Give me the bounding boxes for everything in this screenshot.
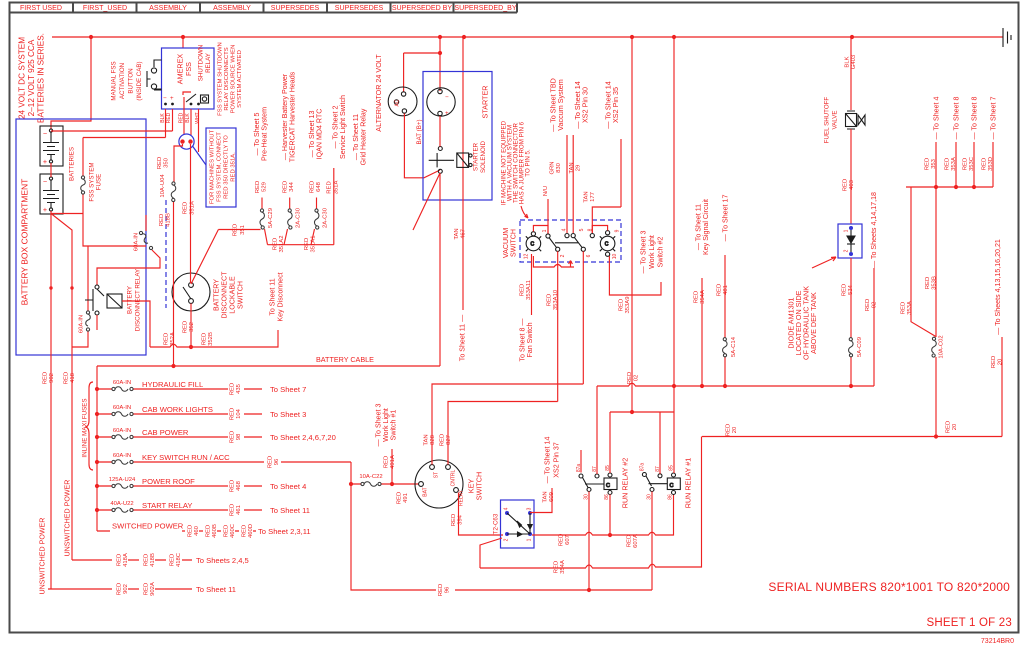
svg-text:RED: RED (233, 224, 239, 236)
tan 467 wire (462, 198, 464, 311)
svg-text:353: 353 (931, 158, 937, 169)
svg-text:2A-C30: 2A-C30 (323, 207, 329, 228)
svg-text:FUSE: FUSE (96, 174, 103, 191)
trunk junction dots (89, 35, 854, 39)
svg-text:Fan Switch: Fan Switch (526, 322, 534, 357)
svg-text:827: 827 (446, 435, 452, 445)
relay wires (581, 386, 674, 590)
svg-text:352B: 352B (208, 332, 214, 346)
svg-text:(INSIDE CAB): (INSIDE CAB) (136, 61, 143, 100)
svg-text:87a: 87a (640, 463, 646, 472)
svg-text:353A: 353A (951, 157, 957, 171)
svg-text:RED: RED (963, 158, 969, 170)
svg-text:RUN RELAY #2: RUN RELAY #2 (621, 458, 630, 508)
svg-text:AC: AC (395, 99, 401, 106)
60A-IN fuse lower (72, 331, 88, 560)
svg-text:RED: RED (230, 504, 236, 516)
svg-text:24 VOLT DC SYSTEM: 24 VOLT DC SYSTEM (18, 37, 27, 119)
pin number labels (524, 228, 621, 259)
svg-text:125A-U24: 125A-U24 (109, 477, 136, 483)
fuse row 5: power roof (97, 485, 262, 487)
svg-text:POWER SOURCE WHEN: POWER SOURCE WHEN (231, 45, 237, 114)
svg-text:3: 3 (527, 507, 533, 510)
svg-text:403: 403 (849, 179, 855, 190)
svg-text:1: 1 (527, 538, 533, 541)
svg-text:RED: RED (520, 284, 526, 296)
svg-text:SWITCH: SWITCH (475, 472, 484, 500)
svg-text:RED: RED (230, 383, 236, 395)
svg-text:RED: RED (144, 554, 150, 566)
svg-text:86: 86 (668, 494, 674, 500)
svg-text:TAN: TAN (584, 191, 590, 202)
svg-text:SHUTDOWN: SHUTDOWN (198, 45, 205, 81)
svg-text:SHEET 1 OF 23: SHEET 1 OF 23 (927, 617, 1012, 629)
svg-text:491: 491 (403, 493, 409, 503)
svg-text:5A-C29: 5A-C29 (268, 208, 274, 228)
fuse row 2: cab work lights (97, 413, 262, 415)
amerex fss box (182, 37, 184, 48)
svg-text:607A: 607A (633, 534, 639, 548)
svg-text:Service Light Switch: Service Light Switch (339, 95, 347, 159)
ground (1003, 28, 1011, 47)
svg-text:10A-C22: 10A-C22 (359, 474, 382, 480)
svg-text:−: − (43, 177, 47, 186)
svg-text:RELAY DISCONNECTS: RELAY DISCONNECTS (224, 47, 230, 110)
svg-text:RED: RED (164, 333, 170, 345)
svg-text:To Sheet 11: To Sheet 11 (269, 278, 277, 315)
svg-text:40A-U22: 40A-U22 (110, 501, 133, 507)
fss connector circle (179, 134, 194, 149)
svg-text:351A2: 351A2 (279, 235, 285, 252)
red 351A wire (190, 144, 192, 283)
svg-text:To Sheet 7: To Sheet 7 (270, 385, 306, 394)
svg-text:RED: RED (166, 112, 172, 123)
svg-text:351: 351 (240, 225, 246, 235)
svg-text:BAT: BAT (423, 487, 429, 496)
diode AM1301 (838, 224, 862, 258)
svg-text:20: 20 (952, 423, 958, 430)
run relay #2 (579, 473, 617, 495)
row red 902 (48, 588, 192, 590)
svg-text:ABOVE DEF TANK: ABOVE DEF TANK (809, 292, 818, 354)
svg-text:Key Disconnect: Key Disconnect (277, 272, 285, 321)
svg-text:BATTERY: BATTERY (213, 279, 221, 311)
svg-text:5A-C14: 5A-C14 (731, 336, 737, 357)
svg-text:To Sheet 2,3,11: To Sheet 2,3,11 (258, 527, 311, 536)
starter solenoid (429, 147, 472, 174)
svg-text:−: − (163, 95, 167, 102)
svg-text:60A-IN: 60A-IN (113, 428, 131, 434)
verticals down from collector (911, 187, 1002, 437)
svg-text:SUPERSEDES: SUPERSEDES (335, 4, 384, 12)
svg-text:−: − (445, 94, 449, 101)
svg-text:— To Sheet 8: — To Sheet 8 (953, 97, 961, 140)
svg-text:C: C (606, 483, 610, 489)
svg-text:Vaccum System: Vaccum System (556, 79, 565, 130)
svg-text:354A: 354A (700, 290, 706, 304)
svg-text:RED: RED (117, 554, 123, 566)
svg-text:TO PIN 5.: TO PIN 5. (525, 149, 532, 177)
svg-text:177: 177 (590, 192, 596, 202)
svg-text:— To Sheet 4: — To Sheet 4 (933, 97, 941, 140)
svg-text:RED: RED (273, 238, 279, 250)
svg-text:Switch #2: Switch #2 (657, 237, 665, 268)
inline maxi fuses trunk (96, 366, 98, 531)
svg-text:2: 2 (560, 254, 566, 257)
svg-text:+: + (445, 110, 449, 117)
svg-text:RED: RED (188, 525, 194, 537)
svg-text:SERIAL NUMBERS 820*1001 TO: SERIAL NUMBERS 820*1001 TO 820*2000 (768, 580, 1010, 594)
svg-text:468: 468 (236, 480, 242, 491)
svg-text:RED: RED (945, 158, 951, 170)
svg-text:2: 2 (504, 538, 510, 541)
svg-text:TAN: TAN (454, 228, 460, 239)
right side collector at y=187 (906, 186, 993, 188)
svg-text:RED: RED (202, 333, 208, 345)
svg-text:LOCKABLE: LOCKABLE (229, 276, 237, 314)
svg-text:RED: RED (224, 525, 230, 537)
svg-text:STARTER: STARTER (473, 142, 480, 171)
svg-text:353B: 353B (932, 276, 938, 290)
svg-text:CAB POWER: CAB POWER (142, 428, 189, 437)
wire red 352 (190, 304, 192, 348)
svg-text:RED: RED (925, 277, 931, 289)
svg-text:RED: RED (230, 408, 236, 420)
svg-text:+: + (43, 157, 47, 166)
svg-text:FOR MACHINES WITHOUT: FOR MACHINES WITHOUT (210, 129, 216, 204)
svg-text:C: C (605, 242, 609, 248)
svg-text:XS2 Pin 35: XS2 Pin 35 (611, 87, 620, 123)
svg-text:BATTERY CABLE: BATTERY CABLE (316, 355, 374, 364)
svg-text:BLK: BLK (185, 113, 191, 123)
horiz wire to amerex / fuse feed (51, 131, 173, 138)
svg-text:RED: RED (117, 583, 123, 595)
svg-text:RED: RED (64, 372, 70, 384)
svg-text:BLK: BLK (845, 56, 851, 67)
svg-text:Key Signal Circuit: Key Signal Circuit (702, 199, 710, 255)
svg-text:344: 344 (289, 181, 295, 192)
svg-text:To Sheet 11 —: To Sheet 11 — (459, 314, 467, 361)
run relay #1 (642, 473, 680, 495)
svg-text:UNSWITCHED POWER: UNSWITCHED POWER (64, 480, 72, 557)
svg-text:353D: 353D (988, 157, 994, 171)
svg-text:BATTERIES: BATTERIES (69, 147, 76, 181)
svg-text:60A-IN: 60A-IN (113, 380, 131, 386)
svg-text:10A-C02: 10A-C02 (939, 335, 945, 358)
svg-text:Pre-Heat System: Pre-Heat System (261, 107, 269, 161)
battery disconnect relay (85, 285, 122, 315)
svg-text:ALTERNATOR 24 VOLT: ALTERNATOR 24 VOLT (374, 54, 383, 132)
svg-text:FSS: FSS (184, 62, 193, 76)
svg-text:SYSTEM ACTIVATED: SYSTEM ACTIVATED (237, 50, 243, 108)
svg-text:461: 461 (236, 505, 242, 515)
svg-text:RED: RED (901, 302, 907, 314)
row red 418A (72, 559, 192, 561)
svg-text:+: + (170, 95, 174, 102)
fuse row 1: hydraulic fill (97, 388, 262, 390)
svg-text:— To Sheets 4,13,15,16,20,21: — To Sheets 4,13,15,16,20,21 (994, 239, 1002, 335)
svg-text:648: 648 (316, 181, 322, 192)
svg-text:86: 86 (604, 494, 610, 500)
svg-text:350: 350 (164, 157, 170, 168)
svg-text:60A-IN: 60A-IN (134, 233, 140, 251)
svg-text:RED: RED (170, 554, 176, 566)
svg-text:RED: RED (310, 181, 316, 193)
row 7: switched power (97, 530, 256, 532)
svg-text:RED: RED (694, 291, 700, 303)
fuse row 6: start relay (97, 509, 262, 511)
svg-text:N/U: N/U (543, 186, 549, 196)
svg-text:418B: 418B (166, 213, 172, 227)
svg-text:RED: RED (255, 181, 261, 193)
svg-text:RED: RED (440, 434, 446, 446)
svg-text:— To Sheet 3: — To Sheet 3 (640, 231, 648, 274)
svg-text:— To Sheet 8: — To Sheet 8 (971, 97, 979, 140)
svg-text:RED: RED (627, 535, 633, 547)
svg-text:98: 98 (236, 433, 242, 440)
four dest wires up (936, 142, 993, 187)
svg-text:60A-IN: 60A-IN (79, 315, 85, 333)
svg-text:435: 435 (236, 383, 242, 394)
svg-text:To Sheet 11: To Sheet 11 (270, 506, 310, 515)
svg-text:12: 12 (524, 254, 530, 260)
svg-text:02: 02 (872, 302, 878, 309)
svg-text:FSS SYSTEM SHUTDOWN: FSS SYSTEM SHUTDOWN (218, 42, 224, 116)
wires above vacuum switch (548, 135, 621, 234)
svg-text:29: 29 (576, 165, 582, 172)
60A-IN fuse upper (97, 215, 160, 285)
svg-text:RED: RED (991, 356, 997, 368)
svg-text:— To Sheet 7: — To Sheet 7 (990, 97, 998, 140)
svg-text:ACTIVATION: ACTIVATION (119, 63, 126, 99)
svg-text:RED: RED (206, 525, 212, 537)
svg-text:6: 6 (586, 254, 592, 257)
wires from T2-C63 (480, 538, 502, 568)
red 20 line (702, 436, 1002, 438)
battery cable (97, 365, 440, 367)
svg-text:POWER ROOF: POWER ROOF (142, 477, 195, 486)
svg-text:BAT (B+): BAT (B+) (416, 119, 423, 144)
svg-text:353A9: 353A9 (625, 296, 631, 313)
svg-text:— To Sheet 17: — To Sheet 17 (722, 195, 730, 242)
10A-C22 fuse row (351, 483, 419, 485)
svg-text:5A-C09: 5A-C09 (857, 337, 863, 357)
svg-text:2–12 VOLT 925 CCA: 2–12 VOLT 925 CCA (27, 39, 36, 116)
svg-text:RED: RED (268, 456, 274, 468)
svg-text:TAN: TAN (569, 162, 575, 173)
red 491A up (391, 449, 393, 484)
svg-text:418A: 418A (123, 553, 129, 567)
svg-text:RED 351A.: RED 351A. (231, 152, 237, 182)
svg-text:460: 460 (194, 525, 200, 536)
svg-text:SWITCH: SWITCH (510, 229, 518, 257)
svg-text:GRN: GRN (550, 161, 556, 174)
svg-text:RED: RED (183, 202, 189, 214)
svg-text:XS2 Pin 30: XS2 Pin 30 (581, 87, 590, 123)
battery B2 (40, 174, 63, 214)
svg-text:RED: RED (230, 480, 236, 492)
svg-text:353C: 353C (969, 156, 975, 171)
svg-text:RED: RED (438, 584, 444, 596)
svg-text:1: 1 (542, 229, 548, 232)
svg-text:RED: RED (982, 158, 988, 170)
battery box compartment (16, 119, 146, 355)
svg-text:96: 96 (445, 586, 451, 593)
svg-text:START RELAY: START RELAY (142, 501, 193, 510)
svg-text:RED: RED (547, 294, 553, 306)
svg-text:RED: RED (726, 424, 732, 436)
starter box (462, 37, 464, 198)
svg-text:BATTERIES IN SERIES.: BATTERIES IN SERIES. (37, 33, 46, 123)
svg-text:RED: RED (619, 299, 625, 311)
svg-text:RED: RED (451, 514, 457, 526)
svg-text:460C: 460C (230, 523, 236, 538)
svg-text:XS2 Pin 37: XS2 Pin 37 (553, 442, 561, 478)
svg-text:TAN: TAN (543, 491, 549, 502)
svg-text:60A-IN: 60A-IN (113, 405, 131, 411)
svg-text:609: 609 (549, 492, 555, 502)
svg-text:460D: 460D (248, 524, 254, 538)
red 481 / 5A-C14 branch (724, 255, 726, 386)
svg-text:TIGERCAT Harvester Heads: TIGERCAT Harvester Heads (289, 71, 297, 162)
svg-text:RED: RED (144, 583, 150, 595)
svg-text:607: 607 (565, 535, 571, 545)
svg-text:351A1: 351A1 (311, 235, 317, 252)
svg-text:96: 96 (274, 458, 280, 465)
svg-text:830: 830 (556, 162, 562, 173)
svg-text:STARTER: STARTER (481, 86, 490, 119)
branch fuses 5A-C29 / 2A-C30 / 2A-C30 (262, 198, 317, 210)
red 352A/B row (150, 330, 278, 347)
title 24 volt dc system (18, 33, 46, 123)
svg-text:RED: RED (43, 372, 49, 384)
svg-text:481: 481 (723, 285, 729, 295)
fuse row 3: cab power (97, 436, 262, 438)
svg-text:RED: RED (242, 525, 248, 537)
red 354A row (480, 437, 702, 569)
battery disconnect lockable switch (172, 273, 210, 311)
svg-text:ASSEMBLY: ASSEMBLY (213, 4, 251, 12)
svg-text:394: 394 (458, 514, 464, 525)
svg-text:FIRST USED: FIRST USED (20, 4, 62, 12)
svg-text:RED 350 DIRECTLY TO: RED 350 DIRECTLY TO (224, 135, 230, 199)
svg-text:To Sheets 2,4,5: To Sheets 2,4,5 (196, 556, 249, 565)
tan 828 / red 827 wires (432, 384, 583, 465)
svg-text:FSS SYSTEM: FSS SYSTEM (89, 162, 96, 201)
svg-text:491A: 491A (390, 455, 396, 469)
svg-text:RED: RED (230, 431, 236, 443)
fuse row 4: key switch run/acc (97, 461, 351, 463)
svg-text:1: 1 (844, 229, 850, 232)
svg-text:RED: RED (627, 372, 633, 384)
svg-text:FSS SYSTEM, CONNECT: FSS SYSTEM, CONNECT (217, 132, 223, 202)
svg-text:10: 10 (612, 254, 618, 260)
svg-text:104: 104 (236, 408, 242, 419)
svg-text:460B: 460B (212, 524, 218, 538)
svg-text:To Sheet 11: To Sheet 11 (196, 585, 236, 594)
wires below vacuum switch (532, 251, 662, 401)
svg-text:SUPERSEDED_BY: SUPERSEDED_BY (454, 4, 517, 12)
svg-text:T2-C63: T2-C63 (493, 513, 500, 534)
svg-text:RED: RED (327, 181, 333, 193)
dashed compartment divider (165, 200, 167, 308)
vacuum switch (520, 220, 621, 262)
svg-text:To Sheet 2,4,6,7,20: To Sheet 2,4,6,7,20 (270, 433, 336, 442)
svg-text:10A-U04: 10A-U04 (160, 174, 166, 198)
svg-text:BATTERY BOX COMPARTMENT: BATTERY BOX COMPARTMENT (20, 179, 30, 306)
red 354A up branch (701, 278, 703, 386)
svg-text:TAN: TAN (424, 434, 430, 445)
svg-text:RED: RED (159, 214, 165, 226)
svg-text:To Sheet 4: To Sheet 4 (270, 482, 306, 491)
red 394 to T2-C63 (459, 493, 504, 536)
T2-C63 diode block (501, 500, 535, 548)
svg-text:418B: 418B (150, 553, 156, 567)
svg-text:RED: RED (717, 284, 723, 296)
svg-text:351A: 351A (334, 181, 340, 195)
svg-text:SOLENOID: SOLENOID (480, 140, 487, 173)
svg-text:IQAN MD4 RTC: IQAN MD4 RTC (316, 109, 324, 160)
svg-text:20: 20 (998, 358, 1004, 365)
svg-text:02: 02 (634, 375, 640, 382)
svg-text:RED: RED (559, 534, 565, 546)
svg-text:CAB WORK LIGHTS: CAB WORK LIGHTS (142, 405, 213, 414)
svg-text:To Sheet 3: To Sheet 3 (270, 410, 306, 419)
svg-text:Work Light: Work Light (648, 235, 656, 269)
red 607 row (532, 495, 674, 536)
red 96 wire down/right (351, 462, 652, 590)
svg-text:60A-IN: 60A-IN (113, 453, 131, 459)
svg-text:CNTRL: CNTRL (451, 469, 457, 486)
svg-text:RED: RED (554, 561, 560, 573)
red 534 / 5A-C09 below diode (850, 258, 852, 386)
red 350 wire (174, 144, 183, 182)
svg-text:SWITCHED POWER: SWITCHED POWER (112, 522, 184, 531)
svg-text:SUPERSEDED BY: SUPERSEDED BY (392, 4, 453, 12)
svg-text:73214BR0: 73214BR0 (981, 638, 1014, 645)
middle trunks (632, 37, 674, 412)
svg-text:SUPERSEDES: SUPERSEDES (271, 4, 320, 12)
svg-text:RUN RELAY #1: RUN RELAY #1 (684, 458, 693, 508)
svg-text:MANUAL FSS: MANUAL FSS (111, 61, 118, 100)
svg-text:2A-C30: 2A-C30 (296, 207, 302, 228)
svg-text:354A: 354A (560, 560, 566, 574)
svg-text:BATTERY: BATTERY (127, 286, 134, 314)
svg-text:2: 2 (844, 249, 850, 252)
svg-text:— To Sheets 4,14,17,18: — To Sheets 4,14,17,18 (870, 192, 878, 268)
svg-text:RED: RED (397, 492, 403, 504)
svg-text:−: − (43, 129, 47, 138)
10A-U04 fuse (173, 202, 175, 367)
svg-text:ST: ST (434, 472, 440, 478)
svg-text:G403: G403 (851, 54, 857, 69)
fss system fuse (83, 138, 146, 312)
svg-text:RED: RED (384, 456, 390, 468)
red 02 horizontal (597, 383, 874, 386)
svg-text:902: 902 (123, 584, 129, 594)
svg-text:RED: RED (865, 299, 871, 311)
svg-text:RED: RED (183, 321, 189, 333)
svg-text:828: 828 (430, 434, 436, 445)
svg-text:FIRST_USED: FIRST_USED (83, 4, 127, 12)
svg-text:SWITCH: SWITCH (237, 281, 245, 309)
svg-text:ASSEMBLY: ASSEMBLY (149, 4, 187, 12)
svg-text:UNSWITCHED POWER: UNSWITCHED POWER (39, 518, 47, 595)
svg-text:Switch #1: Switch #1 (390, 410, 398, 441)
svg-text:902: 902 (49, 373, 55, 383)
note box: for machines without fss (206, 128, 236, 207)
svg-text:353A10: 353A10 (553, 289, 559, 310)
